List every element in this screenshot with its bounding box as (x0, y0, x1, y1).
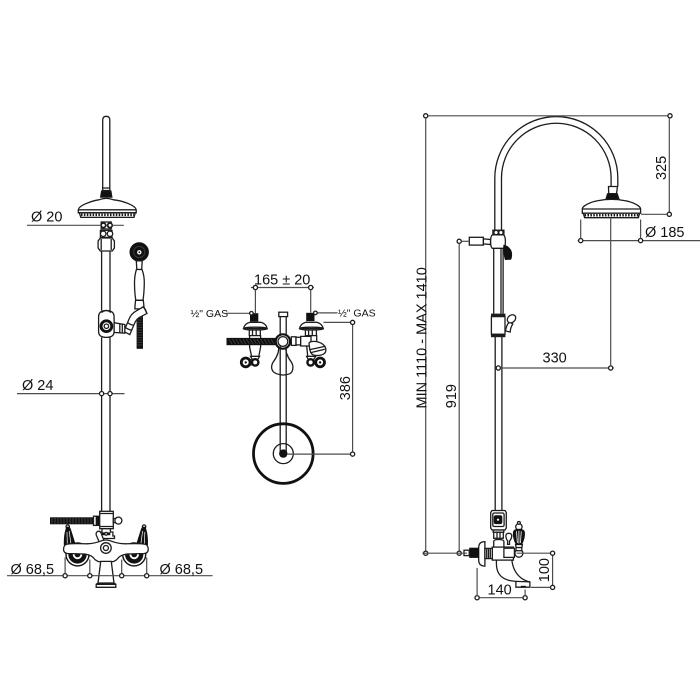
svg-text:Ø 24: Ø 24 (22, 378, 53, 394)
svg-text:325: 325 (654, 156, 670, 180)
svg-text:386: 386 (338, 376, 354, 400)
svg-text:Ø 185: Ø 185 (645, 225, 685, 241)
svg-text:Ø 20: Ø 20 (31, 210, 62, 226)
svg-text:½" GAS: ½" GAS (338, 307, 376, 319)
svg-text:Ø 68,5: Ø 68,5 (11, 562, 55, 578)
svg-text:919: 919 (444, 384, 460, 408)
svg-text:½" GAS: ½" GAS (191, 308, 229, 320)
svg-text:MIN 1110 - MAX 1410: MIN 1110 - MAX 1410 (415, 267, 431, 408)
svg-text:165 ± 20: 165 ± 20 (254, 273, 310, 289)
svg-text:330: 330 (543, 351, 567, 367)
svg-text:100: 100 (537, 558, 553, 582)
svg-text:Ø 68,5: Ø 68,5 (160, 562, 204, 578)
svg-text:140: 140 (488, 582, 512, 598)
